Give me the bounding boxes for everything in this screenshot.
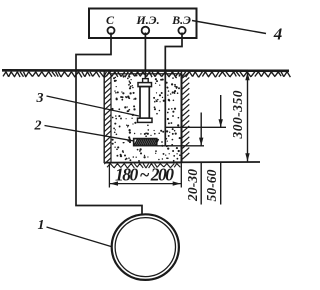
svg-text:50-60: 50-60 — [204, 169, 219, 201]
svg-text:С: С — [106, 13, 115, 27]
svg-text:180 ~ 200: 180 ~ 200 — [115, 165, 174, 185]
svg-text:И.Э.: И.Э. — [135, 13, 159, 27]
svg-text:300-350: 300-350 — [230, 90, 245, 139]
svg-text:20-30: 20-30 — [185, 169, 200, 202]
svg-text:4: 4 — [273, 25, 283, 44]
svg-text:1: 1 — [38, 218, 45, 233]
svg-text:3: 3 — [36, 91, 44, 106]
svg-text:В.Э: В.Э — [171, 13, 191, 27]
svg-text:2: 2 — [34, 119, 42, 134]
